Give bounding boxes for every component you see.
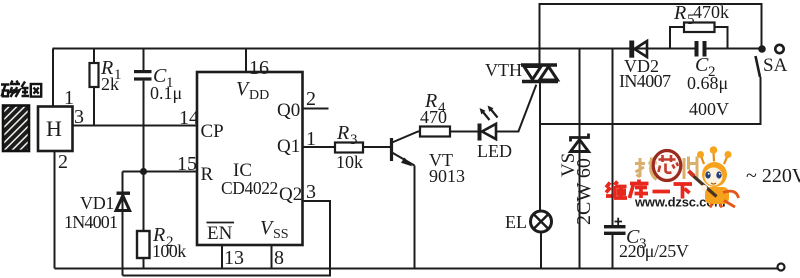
svg-text:Q0: Q0	[277, 100, 300, 121]
svg-text:3: 3	[350, 132, 358, 148]
svg-text:1: 1	[64, 87, 74, 109]
terminal: AC neutral	[778, 264, 785, 271]
svg-text:100k: 100k	[152, 241, 186, 261]
svg-text:SA: SA	[763, 55, 788, 76]
wire: node to IC R pin 15	[123, 171, 198, 173]
diode VD2	[619, 41, 671, 92]
svg-text:Q1: Q1	[277, 136, 300, 157]
watermark 维库一下	[606, 180, 692, 199]
resistor R4	[420, 90, 450, 137]
svg-text:EL: EL	[505, 212, 527, 232]
svg-text:1: 1	[306, 128, 316, 150]
svg-text:2: 2	[58, 151, 68, 173]
svg-text:13: 13	[224, 247, 244, 269]
svg-text:470: 470	[420, 107, 447, 127]
svg-text:2CW 60: 2CW 60	[573, 158, 595, 225]
resistor R2	[137, 224, 186, 269]
resistor R5 (parallel with C2)	[670, 2, 729, 49]
switch SA lever	[756, 56, 761, 77]
svg-text:470k: 470k	[693, 2, 729, 22]
wire: ground/neutral bottom rail	[55, 268, 778, 270]
svg-text:VD1: VD1	[80, 193, 114, 213]
svg-text:2: 2	[306, 88, 316, 110]
svg-text:2k: 2k	[101, 74, 119, 94]
watermark stamp 找芯片	[635, 157, 698, 181]
wire: R3 to VT base	[363, 146, 391, 148]
svg-text:VTH: VTH	[485, 60, 522, 80]
zener VS 2CW60	[558, 49, 595, 269]
svg-text:EN: EN	[207, 223, 233, 244]
pin 8 lead	[271, 245, 273, 269]
svg-text:16: 16	[249, 57, 269, 79]
diode VD1	[64, 172, 130, 276]
terminal: AC live	[775, 45, 783, 53]
wire: pin 1 (Q1) to R3	[303, 146, 336, 148]
svg-text:H: H	[46, 116, 62, 141]
LED D1	[477, 106, 512, 162]
hall sensor H box	[38, 107, 73, 152]
resistor R3	[335, 122, 363, 172]
wire: SA branch to lamp node	[540, 77, 761, 124]
wire: LED to triac gate	[496, 85, 536, 132]
svg-text:10k: 10k	[336, 152, 363, 172]
magnet hatched block	[3, 106, 29, 152]
watermark stamp circle around 芯	[653, 151, 681, 181]
IC U1 CD4022 box	[197, 72, 303, 245]
transistor VT 9013	[392, 132, 466, 269]
wire: top bypass rail (triac anode to SA)	[540, 4, 762, 65]
capacitor C2	[687, 41, 729, 119]
svg-text:LED: LED	[477, 141, 512, 161]
wire: pin 3 (Q2) loop to VD1 anode	[123, 201, 331, 276]
junction dot at SA / rail	[758, 45, 766, 53]
svg-text:CD4022: CD4022	[221, 178, 278, 198]
svg-text:CP: CP	[201, 121, 224, 142]
svg-text:9013: 9013	[429, 166, 465, 186]
wire: top VDD rail left segment	[53, 48, 699, 50]
wire: top VDD rail right segment	[703, 48, 763, 50]
capacitor C3 (electrolytic)	[604, 49, 689, 269]
triac VTH	[485, 60, 558, 82]
svg-text:8: 8	[274, 247, 284, 269]
svg-text:IN4007: IN4007	[619, 71, 671, 91]
resistor R1	[90, 49, 122, 126]
pin 2 stub (Q0)	[303, 108, 329, 110]
wire: triac MT2 down to EL	[539, 83, 541, 211]
pin 13 lead	[221, 245, 223, 269]
svg-text:3: 3	[306, 181, 316, 203]
svg-text:400V: 400V	[689, 99, 729, 119]
watermark mascot	[689, 146, 739, 207]
node 磁钢 (magnet) label drawn strokes	[1, 81, 41, 98]
wire: H pin2 down to ground rail	[54, 151, 56, 269]
svg-text:SS: SS	[273, 227, 289, 242]
pin 16 lead	[245, 49, 247, 73]
svg-text:~ 220V: ~ 220V	[746, 165, 800, 187]
svg-text:R: R	[201, 164, 214, 185]
junction dot (C1/R2/VD1/R-pin node)	[140, 168, 147, 175]
wire: H pin3 to IC CP pin 14	[73, 125, 198, 127]
svg-text:Q2: Q2	[279, 184, 302, 205]
wire: R4 to LED	[450, 131, 478, 133]
wire: H pin1 to top rail	[52, 49, 54, 107]
svg-text:R: R	[336, 122, 349, 144]
svg-text:220μ/25V: 220μ/25V	[619, 241, 689, 261]
svg-text:0.68μ: 0.68μ	[687, 73, 728, 93]
svg-text:15: 15	[177, 153, 197, 175]
lamp EL	[505, 211, 552, 269]
capacitor C1	[134, 49, 182, 232]
svg-text:0.1μ: 0.1μ	[150, 83, 182, 103]
svg-text:R: R	[673, 2, 686, 24]
svg-text:DD: DD	[249, 88, 269, 103]
svg-text:1N4001: 1N4001	[64, 212, 117, 232]
